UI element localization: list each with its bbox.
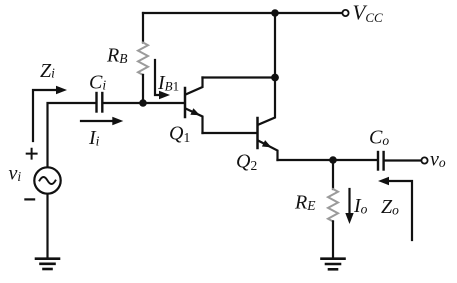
svg-text:Io: Io	[353, 195, 368, 217]
wire Co to vo terminal	[386, 159, 422, 161]
svg-text:Q1: Q1	[169, 123, 190, 146]
ground left	[36, 259, 59, 269]
label Co	[369, 127, 389, 149]
svg-text:RB: RB	[106, 45, 127, 67]
label Ii	[88, 127, 100, 149]
label vi	[9, 163, 22, 185]
label Q1	[169, 123, 190, 146]
svg-text:VCC: VCC	[353, 1, 383, 26]
ground right	[322, 259, 345, 270]
svg-text:Q2: Q2	[236, 151, 257, 174]
source vi	[34, 167, 60, 193]
label IB1	[157, 72, 179, 94]
label Q2	[236, 151, 257, 174]
wire Q1 emitter to Q2 base	[203, 132, 257, 134]
svg-text:Zi: Zi	[40, 60, 55, 82]
label VCC	[353, 1, 383, 26]
node collector junction	[271, 74, 279, 82]
svg-text:Zo: Zo	[381, 196, 399, 218]
wire RE bottom stub	[332, 221, 334, 258]
wire Q1 collector to node	[203, 76, 276, 78]
capacitor Ci	[97, 93, 103, 112]
resistor RB	[138, 43, 148, 75]
capacitor Co	[378, 152, 384, 170]
node top rail / Q2 collector branch	[271, 9, 279, 17]
svg-text:Ci: Ci	[89, 72, 106, 94]
wire source to Ci	[48, 103, 95, 167]
wire RB bottom stub	[142, 75, 144, 103]
terminal vo	[421, 157, 427, 163]
label RB	[106, 45, 127, 67]
wire top rail VCC	[143, 12, 341, 14]
arrow Io	[345, 189, 353, 224]
wire VCC rail to collector node	[274, 13, 276, 78]
label Ci	[89, 72, 106, 94]
label vo	[430, 149, 446, 171]
label vi plus	[27, 149, 37, 159]
svg-text:IB1: IB1	[157, 72, 179, 94]
transistor Q1	[185, 78, 203, 134]
wire RE top stub	[332, 160, 334, 189]
wire node to Co	[333, 159, 376, 161]
svg-text:Co: Co	[369, 127, 389, 149]
wire Ci to Q1 base	[104, 102, 184, 104]
label RE	[294, 192, 316, 214]
arrow Zi	[33, 86, 67, 141]
arrow IB1	[155, 60, 170, 99]
svg-text:RE: RE	[294, 192, 316, 214]
label Zo	[381, 196, 399, 218]
arrow Zo	[378, 177, 412, 240]
label Zi	[40, 60, 55, 82]
wire RB top stub	[142, 13, 144, 43]
resistor RE	[328, 189, 338, 221]
terminal VCC	[342, 10, 348, 16]
svg-text:vi: vi	[9, 163, 22, 185]
svg-text:Ii: Ii	[88, 127, 100, 149]
wire source to ground	[46, 194, 48, 258]
node emitter output junction	[329, 156, 337, 164]
transistor Q2	[258, 78, 278, 160]
label Io	[353, 195, 368, 217]
label vi minus	[25, 198, 34, 200]
node base junction	[139, 99, 147, 107]
arrow Ii	[81, 117, 123, 125]
wire Q2 emitter to output node	[278, 159, 334, 161]
svg-text:vo: vo	[430, 149, 446, 171]
